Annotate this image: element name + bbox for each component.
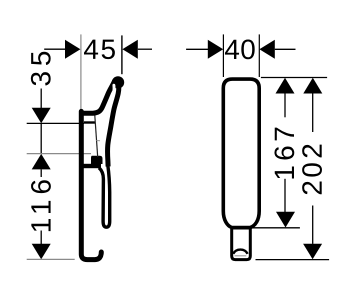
reference line pill bottom (167) (253, 227, 300, 229)
dimension 116 arrow up (32, 154, 51, 170)
clip bottom stroke to plate (83, 164, 101, 168)
dimension line segment below 35 text (40, 89, 42, 109)
mounting clip blob (91, 156, 103, 164)
extension line right of 40 (258, 34, 260, 77)
extension line left (gray, back of wall plate) (80, 34, 82, 111)
stub faint inner line (235, 255, 247, 257)
pill bottom shoulder line (231, 227, 252, 230)
dimension 202 line upper segment (312, 94, 314, 133)
dimension 45 text (84, 40, 115, 60)
reference line bracket top (gray) (27, 153, 91, 155)
prong lower U outline (99, 165, 110, 227)
reference line top of rail (black) (27, 122, 84, 124)
hook arm tip cap (112, 76, 124, 88)
dimension 45 arrow left (65, 40, 80, 59)
extension line right (black, hook tip) (121, 35, 123, 74)
dimension 35 text (rotated) (31, 52, 51, 86)
extension line left of 40 (222, 34, 224, 77)
dimension line segment above 116 text (40, 169, 42, 177)
dimension 167 arrow up (276, 78, 295, 94)
dimension 40 leader right (275, 48, 296, 50)
reference line plate bottom (gray) (27, 258, 75, 260)
tiny tick on contour (96, 140, 100, 142)
dimension 202 arrow down (303, 244, 322, 260)
hook arm left stroke (from plate up to tip) (83, 81, 115, 114)
dimension 40 text (225, 39, 255, 59)
reference line top (for 167/202) (261, 77, 327, 79)
dimension 45 leader left (44, 48, 66, 50)
reference line stub bottom (202) (256, 259, 330, 261)
dimension 167 line lower segment (284, 179, 286, 212)
wall plate with bottom J-curl (81, 111, 101, 259)
dimension 40 arrow left (208, 40, 223, 59)
dimension 35 arrow down (32, 108, 51, 124)
stub inner arc (233, 250, 247, 254)
dimension 167 text (rotated) (274, 128, 294, 179)
hook arm right stroke continuing into prong (108, 82, 119, 167)
dimension 116 text (rotated) (31, 180, 51, 231)
dimension 45 leader right (138, 48, 152, 50)
pill body outline (223, 79, 259, 227)
thin contour line on plate (95, 116, 98, 158)
dimension 202 arrow up (303, 78, 322, 94)
dimension line between 35 and 116 (40, 123, 42, 153)
bottom stub (232, 227, 251, 260)
dimension 202 line lower segment (312, 206, 314, 244)
dimension 116 arrow down (32, 244, 51, 259)
dimension 45 arrow right (122, 40, 137, 59)
dimension 167 line upper segment (284, 94, 286, 118)
white slot inside arm (108, 85, 114, 107)
dimension 202 text (rotated) (302, 145, 322, 195)
dimension 167 arrow down (276, 212, 295, 228)
dimension line segment below 116 text (40, 231, 42, 245)
rail bottom edge segment (thicker) (84, 121, 95, 123)
dimension 40 arrow right (259, 40, 274, 59)
dimension 40 leader left (186, 48, 208, 50)
